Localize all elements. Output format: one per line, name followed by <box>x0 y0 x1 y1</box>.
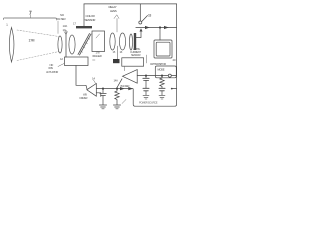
svg-text:BUFFER: BUFFER <box>121 84 130 88</box>
svg-text:MODE: MODE <box>158 68 165 72</box>
svg-text:SENSOR: SENSOR <box>131 53 141 57</box>
relay leader arrow <box>114 15 119 19</box>
bus arrow 4 <box>128 87 133 90</box>
svg-text:SENSOR: SENSOR <box>85 18 97 22</box>
mark right of box <box>93 59 96 61</box>
wire sensor up <box>83 4 85 26</box>
svg-text:POWER SOURCE: POWER SOURCE <box>139 101 158 105</box>
bus arrowhead 1 <box>145 26 150 29</box>
monitor screen <box>156 42 170 56</box>
svg-text:LENS: LENS <box>110 9 117 13</box>
bus bottom <box>96 88 133 90</box>
chain B cap2 <box>159 87 165 89</box>
rounded box <box>155 66 176 78</box>
terminal circle <box>168 74 171 77</box>
svg-text:ACTUATOR: ACTUATOR <box>46 70 58 74</box>
lens L2 <box>58 36 62 53</box>
svg-text:DRIVER: DRIVER <box>80 96 88 100</box>
svg-text:15: 15 <box>113 50 116 54</box>
stub right <box>171 88 173 90</box>
chain B resistor <box>160 76 164 88</box>
relay lens 2 <box>119 33 125 50</box>
amp1 lower stub <box>96 93 101 97</box>
chain B ground <box>159 94 165 96</box>
label 7 <box>29 11 31 18</box>
amp2 triangle <box>123 70 138 84</box>
sensor out wire <box>136 31 141 38</box>
amp1 triangle <box>87 84 97 97</box>
ground G2 <box>113 104 120 106</box>
leader <box>58 64 64 67</box>
svg-text:20: 20 <box>173 58 176 62</box>
switch arm <box>142 16 148 22</box>
svg-text:1?M: 1?M <box>29 39 35 43</box>
ground G1 <box>99 104 106 106</box>
lens L1 <box>9 28 14 63</box>
ray top <box>17 30 59 37</box>
svg-text:1: 1 <box>6 23 8 27</box>
resistor R1 <box>115 89 119 105</box>
bus arrow 3 <box>120 87 125 90</box>
svg-text:17: 17 <box>73 22 76 26</box>
half mirror <box>78 34 90 55</box>
svg-text:18: 18 <box>148 14 151 18</box>
svg-text:CRT MONITOR: CRT MONITOR <box>150 62 166 66</box>
switch contact circle <box>139 21 142 24</box>
svg-text:IMAGER: IMAGER <box>93 54 102 58</box>
image sensor slab <box>134 33 136 50</box>
bus arrowhead 2 <box>164 26 169 29</box>
relay lens 1 <box>110 33 115 50</box>
monitor box <box>154 40 172 58</box>
camera box <box>92 31 105 52</box>
chain A ground <box>143 94 149 96</box>
svg-text:12: 12 <box>60 57 63 61</box>
leader <box>57 21 59 34</box>
junction dots bottom <box>102 88 104 90</box>
svg-text:16: 16 <box>120 50 123 54</box>
up arrowhead <box>140 28 143 31</box>
bottom box <box>133 89 176 106</box>
iris lens L3 <box>69 35 75 54</box>
svg-text:14A: 14A <box>114 79 119 83</box>
svg-text:WB: WB <box>83 93 87 97</box>
junction dot <box>159 26 161 28</box>
ray bottom <box>17 52 59 61</box>
link down to WB blob <box>117 46 119 59</box>
diagonal wire to bus <box>117 79 122 88</box>
WB blob <box>113 59 120 63</box>
svg-text:FILTER: FILTER <box>57 17 66 21</box>
field lens <box>130 34 133 50</box>
chain A cap2 <box>143 87 149 89</box>
bus wire <box>136 27 177 29</box>
leader 21 <box>122 100 126 104</box>
dimension line 7 <box>3 18 56 20</box>
color sensor slab <box>76 26 92 28</box>
monitor drop wire <box>159 28 161 41</box>
switch drop wire <box>139 4 141 21</box>
wire actuator to amp1 <box>76 66 87 90</box>
short vertical near monitor <box>146 55 148 63</box>
tick wavebox to amp <box>124 66 126 71</box>
chain A cap <box>145 76 147 78</box>
ND filter plate <box>65 31 67 58</box>
junction dots <box>145 75 147 77</box>
wire top horizontal <box>84 3 177 5</box>
amp2 out wire <box>137 75 168 77</box>
wave gen box <box>122 58 144 66</box>
iris actuator box <box>65 57 89 66</box>
capacitor C1 <box>102 89 104 93</box>
right edge wire <box>176 4 178 89</box>
